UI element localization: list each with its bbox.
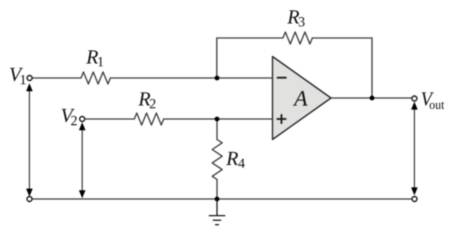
wire top rail left of R3: [217, 37, 283, 39]
node bottom-left ground terminal: [27, 197, 32, 202]
voltage arrow V1 (double-headed, terminal to ground rail): [26, 83, 33, 196]
resistor R4: [212, 140, 222, 180]
node V2 input terminal: [80, 117, 85, 122]
junction node: output / feedback: [370, 96, 375, 101]
label R3: [287, 10, 304, 26]
resistor R3: [283, 32, 312, 44]
label V1: [10, 68, 26, 84]
label R2: [138, 92, 155, 108]
wire R1 to op-amp inverting input: [110, 77, 272, 79]
label V2: [62, 109, 77, 125]
wire feedback right vertical to output node: [371, 38, 373, 98]
node V1 input terminal: [27, 76, 32, 81]
wire top rail right of R3: [312, 37, 372, 39]
junction node: R4 / ground rail: [215, 197, 220, 202]
junction node: R2 / R4 tap: [215, 117, 220, 122]
wire R4 bottom lead: [216, 180, 218, 200]
label A (op-amp gain): [293, 91, 308, 106]
node Vout output terminal: [412, 96, 417, 101]
wire bottom ground rail: [32, 198, 412, 200]
wire V2 terminal to R2: [85, 118, 135, 120]
label Vout: [422, 92, 445, 109]
op-amp inverting input minus sign: [277, 77, 287, 79]
node bottom-right ground terminal: [412, 197, 417, 202]
op-amp U1 body: [273, 57, 332, 140]
ground symbol: [209, 199, 226, 225]
label R4: [226, 152, 245, 168]
voltage arrow Vout (double-headed, terminal to ground rail): [411, 102, 418, 196]
junction node: R1 / feedback tap: [215, 76, 220, 81]
wire V1 terminal to R1: [32, 77, 81, 79]
wire R2 to op-amp non-inverting input: [164, 118, 273, 120]
op-amp non-inverting input plus sign: [277, 114, 287, 124]
wire op-amp output to Vout terminal: [331, 97, 412, 99]
voltage arrow V2 (double-headed, terminal to ground rail): [79, 122, 86, 198]
label R1: [86, 50, 103, 66]
resistor R2: [134, 113, 163, 125]
resistor R1: [81, 72, 110, 84]
wire R4 top lead: [216, 119, 218, 140]
wire feedback left vertical: [216, 38, 218, 78]
